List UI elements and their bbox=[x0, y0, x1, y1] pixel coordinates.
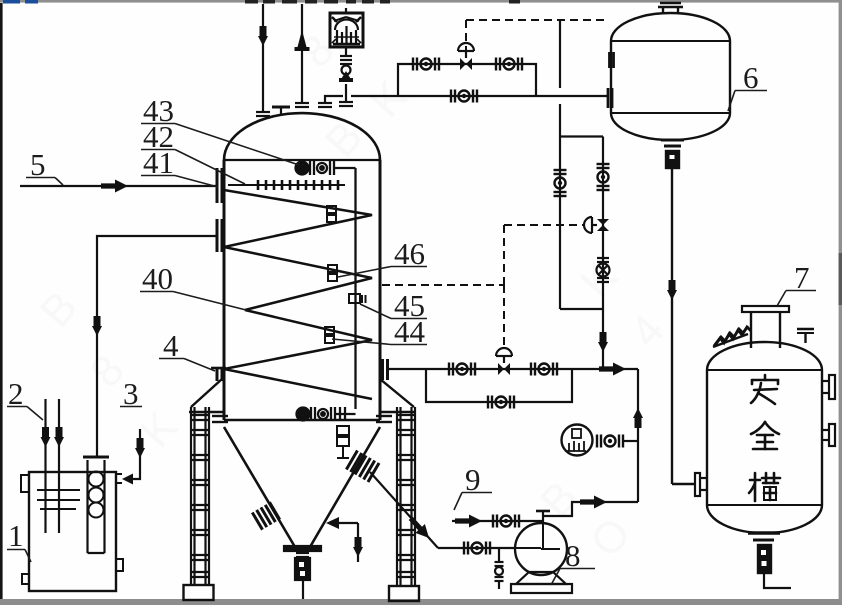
svg-text:40: 40 bbox=[142, 261, 173, 296]
svg-text:7: 7 bbox=[794, 260, 810, 295]
svg-text:K: K bbox=[571, 252, 627, 307]
svg-text:44: 44 bbox=[394, 314, 426, 349]
svg-text:2: 2 bbox=[8, 376, 24, 411]
svg-text:5: 5 bbox=[30, 147, 46, 182]
svg-text:4: 4 bbox=[621, 306, 674, 357]
svg-text:4: 4 bbox=[163, 328, 179, 363]
svg-text:6: 6 bbox=[743, 60, 759, 95]
svg-text:B: B bbox=[531, 472, 587, 527]
svg-text:9: 9 bbox=[465, 462, 481, 497]
svg-text:8: 8 bbox=[565, 538, 581, 573]
svg-text:43: 43 bbox=[143, 93, 174, 128]
svg-text:1: 1 bbox=[8, 518, 24, 553]
svg-text:K: K bbox=[361, 72, 417, 127]
svg-text:8: 8 bbox=[291, 26, 344, 77]
svg-text:3: 3 bbox=[123, 376, 139, 411]
svg-text:46: 46 bbox=[394, 236, 425, 271]
svg-text:O: O bbox=[581, 508, 640, 566]
svg-text:B: B bbox=[31, 282, 87, 337]
